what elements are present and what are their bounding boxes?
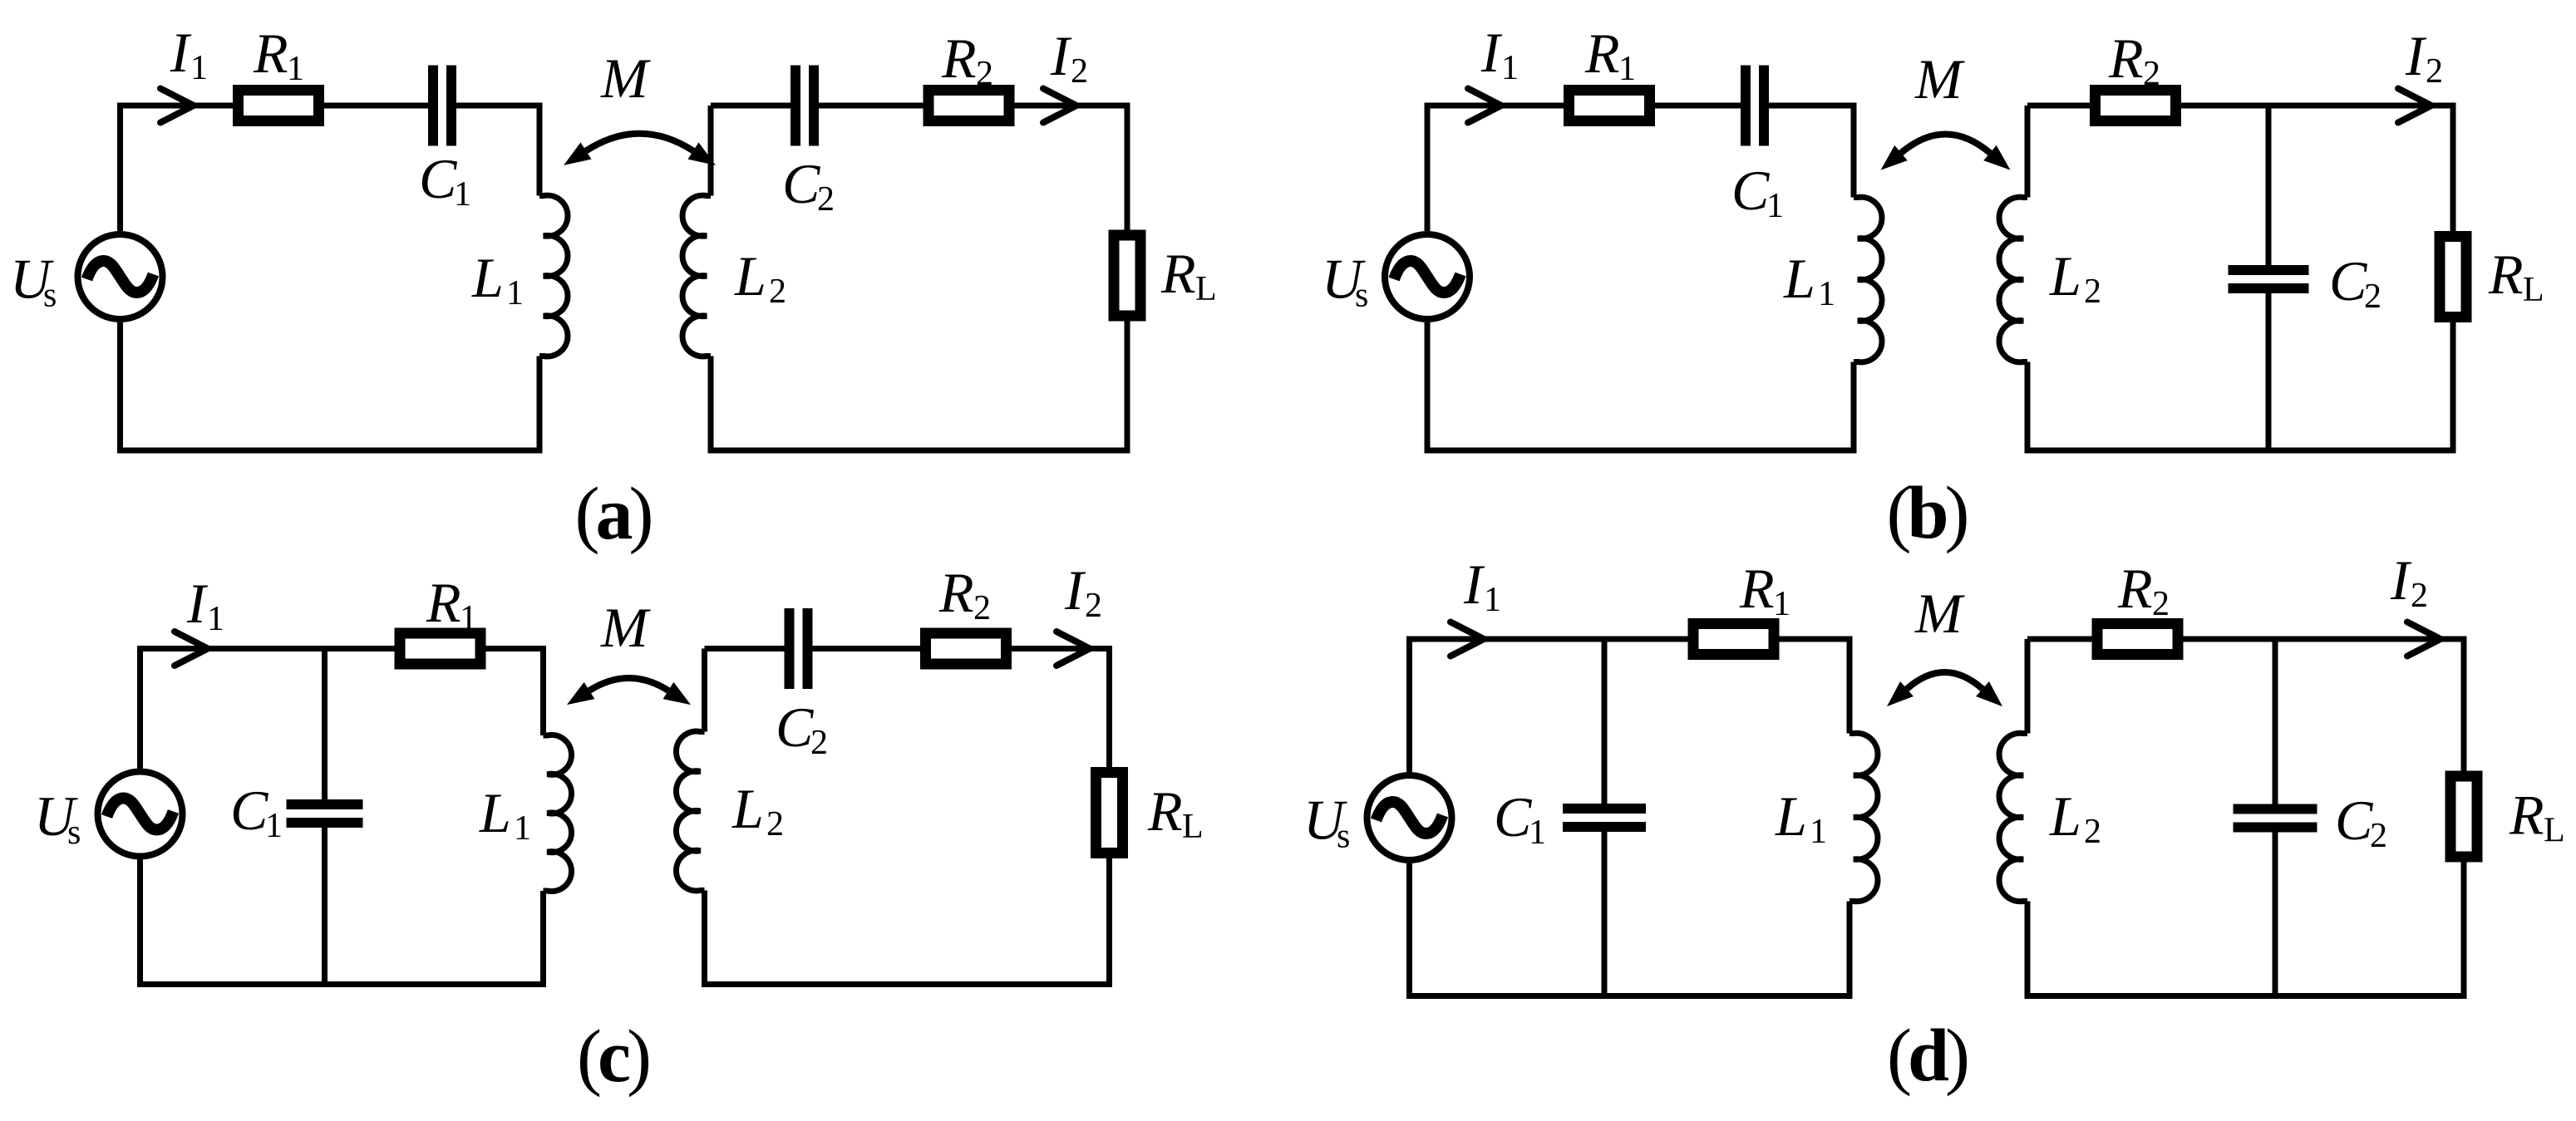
capacitor C1 (b) (1741, 66, 1769, 146)
svg-text:I: I (1463, 553, 1485, 616)
inductor L2 (d) (1999, 733, 2027, 901)
wire (456, 106, 539, 196)
svg-text:I: I (1050, 24, 1072, 87)
svg-text:R: R (938, 561, 974, 624)
svg-text:I: I (186, 572, 209, 635)
current arrow I1 (c) (175, 632, 208, 666)
wire (2025, 639, 2031, 734)
svg-text:2: 2 (810, 724, 828, 762)
svg-text:R: R (1584, 22, 1620, 85)
label L2 (b) (2049, 244, 2101, 311)
svg-text:R: R (2488, 243, 2524, 306)
svg-text:(d): (d) (1887, 1015, 1968, 1097)
label L2 (d) (2049, 784, 2101, 851)
wire (705, 646, 785, 651)
svg-text:R: R (426, 571, 461, 634)
circuit (a) series-series topology (10, 21, 1217, 555)
label C1 (c) (230, 779, 283, 845)
svg-text:M: M (600, 47, 651, 110)
svg-text:2: 2 (2084, 273, 2101, 311)
label C1 (b) (1731, 159, 1784, 225)
svg-text:1: 1 (460, 599, 477, 637)
current arrow I2 (d) (2407, 622, 2441, 656)
current arrow I1 (a) (160, 89, 194, 123)
wire (813, 649, 1110, 773)
svg-text:C: C (1731, 159, 1770, 222)
label RL (d) (2509, 784, 2565, 850)
label Us (c) (34, 784, 81, 852)
svg-text:L: L (2523, 271, 2544, 309)
svg-text:L: L (479, 781, 511, 844)
load resistor RL (c) (1096, 773, 1123, 853)
svg-text:L: L (2049, 784, 2081, 848)
mutual coupling arrow Mb (1901, 135, 1990, 154)
svg-text:1: 1 (1818, 275, 1835, 313)
current arrow I1 (b) (1468, 89, 1501, 123)
svg-text:s: s (67, 814, 81, 852)
mutual coupling arrow Ma (586, 134, 693, 151)
svg-text:2: 2 (2411, 577, 2428, 615)
wire (121, 106, 429, 231)
inductor L2 (b) (1999, 197, 2027, 362)
svg-text:2: 2 (2364, 278, 2381, 316)
label R2 (a) (941, 27, 993, 93)
capacitor C2 (c) (785, 608, 813, 689)
label C2 (d) (2335, 789, 2387, 855)
wire (1769, 106, 1854, 198)
wire (1410, 863, 1850, 996)
resistor R2 (b) (2096, 91, 2176, 121)
wire (2266, 106, 2272, 265)
svg-text:L: L (734, 244, 766, 307)
circuit (d) parallel-parallel topology (1303, 548, 2565, 1097)
wire (711, 317, 1127, 451)
svg-text:1: 1 (514, 809, 531, 848)
label RL (b) (2488, 243, 2544, 309)
label C1 (d) (1494, 785, 1546, 852)
resistor R1 (a) (239, 91, 319, 121)
svg-text:1: 1 (1501, 49, 1519, 87)
svg-text:L: L (471, 246, 504, 309)
svg-text:2: 2 (769, 273, 786, 311)
svg-text:L: L (1783, 247, 1815, 310)
load resistor RL (d) (2450, 776, 2477, 857)
wire (2273, 833, 2278, 996)
label R2 (d) (2117, 557, 2170, 623)
svg-text:s: s (43, 277, 57, 315)
svg-text:2: 2 (1085, 587, 1102, 625)
label RL (a) (1160, 242, 1217, 308)
capacitor C1 (a) (428, 66, 456, 146)
label R2 (b) (2108, 27, 2160, 93)
wire (2273, 639, 2278, 804)
svg-text:1: 1 (190, 49, 208, 87)
svg-text:(a): (a) (575, 473, 652, 555)
inductor L1 (c) (544, 735, 572, 891)
label I1 (a) (170, 21, 208, 87)
current arrow I2 (c) (1057, 632, 1090, 666)
svg-text:I: I (170, 21, 192, 84)
wire (322, 828, 328, 985)
AC source U3 (98, 772, 183, 857)
wire (705, 853, 1110, 985)
inductor L2 (a) (682, 195, 711, 356)
label I1 (b) (1480, 21, 1519, 87)
current arrow I2 (a) (1043, 89, 1076, 123)
svg-text:s: s (1337, 818, 1350, 856)
wire (2027, 106, 2453, 237)
inductor L2 (c) (676, 731, 704, 891)
svg-text:M: M (1914, 47, 1965, 111)
wire (1427, 322, 1854, 450)
resistor R2 (a) (928, 91, 1009, 121)
svg-text:1: 1 (1484, 581, 1501, 619)
label L1 (a) (471, 246, 524, 312)
label R1 (c) (426, 571, 477, 637)
svg-text:C: C (1494, 785, 1532, 848)
AC source U2 (1385, 234, 1470, 319)
svg-text:1: 1 (287, 50, 304, 88)
capacitor C1 (d) (1563, 804, 1646, 832)
capacitor C2 (d) (2234, 804, 2317, 833)
wire (702, 649, 707, 732)
svg-text:s: s (1355, 277, 1368, 315)
svg-text:1: 1 (207, 600, 224, 638)
label C2 (c) (776, 696, 828, 762)
svg-text:1: 1 (1773, 585, 1790, 623)
svg-text:C: C (230, 779, 268, 842)
label C2 (b) (2329, 249, 2381, 316)
svg-text:C: C (2335, 789, 2373, 852)
wire (2027, 857, 2464, 996)
circuit (c) parallel-series topology (34, 558, 1204, 1098)
capacitor C1 (c) (287, 799, 363, 828)
label R1 (d) (1739, 557, 1790, 623)
svg-text:R: R (2509, 784, 2544, 847)
svg-text:L: L (1182, 808, 1204, 846)
svg-text:1: 1 (1766, 187, 1784, 225)
inductor L1 (d) (1849, 733, 1878, 901)
svg-text:2: 2 (976, 55, 993, 93)
svg-text:I: I (1064, 558, 1086, 622)
circuit (b) series-parallel topology (1322, 21, 2544, 554)
resistor R2 (d) (2097, 624, 2178, 655)
svg-text:(c): (c) (577, 1015, 649, 1098)
svg-text:R: R (1147, 779, 1183, 843)
svg-text:M: M (1914, 582, 1965, 645)
label Us (b) (1322, 248, 1368, 315)
label I2 (b) (2405, 24, 2443, 91)
wire (708, 106, 714, 196)
svg-text:L: L (1775, 784, 1807, 848)
svg-text:(b): (b) (1886, 472, 1967, 554)
svg-text:M: M (600, 596, 651, 659)
label Us (a) (10, 248, 57, 315)
label R1 (a) (253, 22, 304, 88)
svg-text:L: L (2544, 812, 2565, 850)
svg-text:1: 1 (1529, 814, 1546, 852)
mutual coupling arrow Md (1907, 672, 1982, 689)
inductor L1 (a) (539, 195, 568, 356)
svg-text:2: 2 (766, 805, 784, 843)
capacitor C2 (b) (2229, 265, 2309, 293)
capacitor C2 (a) (791, 66, 819, 146)
label L1 (d) (1775, 784, 1827, 851)
svg-text:1: 1 (506, 274, 524, 312)
label I2 (d) (2390, 548, 2428, 615)
svg-text:I: I (1480, 21, 1503, 84)
svg-text:1: 1 (1810, 813, 1827, 851)
resistor R1 (c) (400, 633, 480, 664)
wire (1410, 639, 1850, 772)
svg-text:2: 2 (2152, 585, 2170, 623)
load resistor RL (a) (1114, 235, 1140, 316)
wire (2027, 639, 2464, 776)
svg-text:I: I (2405, 24, 2427, 87)
wire (2266, 293, 2272, 450)
load resistor RL (b) (2440, 237, 2466, 317)
svg-text:C: C (782, 152, 820, 215)
svg-text:2: 2 (2084, 813, 2101, 851)
resistor R2 (c) (926, 633, 1007, 664)
label L2 (c) (731, 777, 784, 843)
label R1 (b) (1584, 22, 1636, 88)
wire (1602, 832, 1608, 996)
AC source U1 (78, 234, 163, 319)
svg-text:R: R (2108, 27, 2144, 90)
svg-text:R: R (1739, 557, 1775, 620)
svg-text:2: 2 (2143, 55, 2160, 93)
label I2 (a) (1050, 24, 1088, 91)
svg-text:2: 2 (2370, 817, 2387, 855)
label C1 (a) (419, 147, 471, 214)
svg-text:R: R (2117, 557, 2153, 620)
wire (1602, 639, 1608, 804)
svg-text:I: I (2390, 548, 2412, 612)
wire (819, 106, 1127, 235)
label L1 (b) (1783, 247, 1835, 313)
svg-text:C: C (419, 147, 457, 210)
svg-text:2: 2 (1071, 52, 1088, 91)
svg-text:L: L (2049, 244, 2081, 307)
svg-text:C: C (2329, 249, 2367, 312)
svg-text:2: 2 (2426, 52, 2443, 91)
wire (140, 860, 544, 985)
svg-text:R: R (1160, 242, 1196, 305)
label I1 (d) (1463, 553, 1501, 619)
svg-text:L: L (731, 777, 764, 840)
label L2 (a) (734, 244, 786, 311)
label RL (c) (1147, 779, 1204, 846)
svg-text:R: R (941, 27, 977, 90)
wire (2027, 318, 2453, 451)
svg-text:R: R (253, 22, 288, 85)
wire (711, 103, 791, 109)
svg-text:C: C (776, 696, 814, 759)
svg-text:1: 1 (1618, 50, 1636, 88)
label R2 (c) (938, 561, 991, 627)
label L1 (c) (479, 781, 531, 848)
label I1 (c) (186, 572, 224, 638)
svg-text:L: L (1195, 270, 1217, 308)
label I2 (c) (1064, 558, 1102, 625)
svg-text:2: 2 (817, 180, 835, 219)
label Us (d) (1303, 789, 1350, 856)
wire (2025, 106, 2031, 198)
svg-text:2: 2 (973, 589, 991, 627)
label C2 (a) (782, 152, 835, 219)
resistor R1 (b) (1569, 91, 1650, 121)
wire (140, 649, 544, 769)
resistor R1 (d) (1693, 624, 1774, 655)
current arrow I2 (b) (2398, 89, 2431, 123)
inductor L1 (b) (1854, 197, 1882, 362)
AC source U4 (1367, 775, 1452, 860)
wire (322, 649, 328, 800)
current arrow I1 (d) (1451, 622, 1484, 656)
svg-text:1: 1 (265, 807, 283, 845)
svg-text:1: 1 (454, 175, 471, 214)
mutual coupling arrow Mc (589, 678, 668, 691)
wire (1427, 106, 1741, 231)
wire (121, 322, 540, 450)
